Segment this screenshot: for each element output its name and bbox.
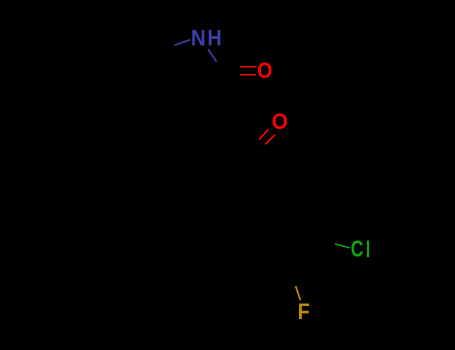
- wire N-C2 blue half: [208, 49, 217, 62]
- oxygen O lactam: [258, 63, 272, 79]
- five-membered lactam ring (black carbon halves): [161, 45, 222, 103]
- phenyl ring 3-chloro-4-fluorophenyl (black skeleton): [237, 190, 315, 267]
- wire C3-CH2: [199, 104, 210, 142]
- chlorine Cl label: [352, 241, 370, 258]
- oxygen O ketone: [273, 114, 288, 130]
- carbonyl C2=O double bond black C halves: [223, 67, 240, 75]
- wire CH2-CO: [210, 141, 253, 152]
- bond C-Cl green half: [335, 244, 350, 248]
- benzene ring of oxindole (black-on-black skeleton): [92, 31, 161, 111]
- NH label N1: [192, 30, 220, 46]
- carbonyl C2=O double bond red O halves: [240, 67, 256, 75]
- wire N-C7a blue half: [175, 40, 191, 46]
- bond C-Cl black half: [315, 237, 335, 244]
- ketone C=O double bond black C halves: [250, 140, 265, 155]
- bond C-F black half: [287, 266, 295, 286]
- fluorine F label: [299, 304, 309, 320]
- bond C-F gold half: [296, 286, 301, 300]
- wire CO-ipso: [253, 152, 265, 190]
- ketone C=O double bond red O halves: [259, 130, 275, 145]
